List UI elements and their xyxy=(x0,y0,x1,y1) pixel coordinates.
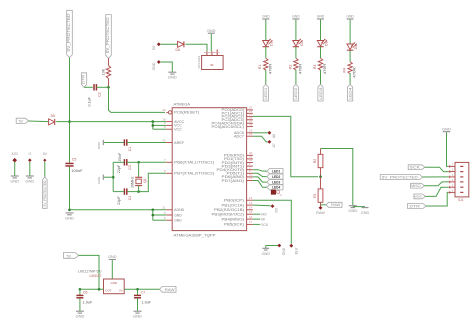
svg-text:470R: 470R xyxy=(268,63,272,74)
pinhead flag ADC6 xyxy=(253,131,276,138)
wire C3 left xyxy=(113,161,124,163)
svg-text:Q1: Q1 xyxy=(143,178,147,183)
capacitor C6 1.0uF xyxy=(76,289,93,311)
wire XTAL1 net xyxy=(139,161,167,163)
svg-text:5V: 5V xyxy=(152,45,156,50)
junction DTR-cap / pull-up xyxy=(107,86,110,89)
resistor R3 470 xyxy=(313,47,327,74)
svg-text:SJ1: SJ1 xyxy=(458,198,464,202)
wire 5V flag to D5 xyxy=(28,120,48,123)
pinhead flag 5V (to D6) xyxy=(152,42,161,50)
svg-text:GND: GND xyxy=(97,176,101,184)
ground GND above header xyxy=(442,126,451,131)
svg-text:A7D: A7D xyxy=(11,152,18,156)
wire PD pin to flag LED1 xyxy=(253,170,267,171)
wire R2 top to GND xyxy=(321,149,353,206)
LED D4 with ground xyxy=(346,14,358,50)
net flag DTR xyxy=(81,73,87,88)
svg-text:PB7(XTAL2/TOSC2): PB7(XTAL2/TOSC2) xyxy=(174,172,214,176)
supply flag 5V_PROTECTED (second) xyxy=(105,15,111,59)
IC U1 right pins xyxy=(212,106,253,227)
svg-text:1.0uF: 1.0uF xyxy=(83,301,93,305)
svg-text:D4: D4 xyxy=(354,45,358,49)
svg-text:17: 17 xyxy=(249,220,253,224)
net flag MOSI (header) xyxy=(414,187,449,199)
svg-text:12: 12 xyxy=(249,196,253,200)
wire D5 to AVCC rail xyxy=(56,121,166,123)
svg-text:RAW: RAW xyxy=(331,203,341,207)
svg-text:LED1: LED1 xyxy=(263,88,268,100)
svg-text:22pF: 22pF xyxy=(117,164,121,173)
svg-text:PB2(SS/OC1B): PB2(SS/OC1B) xyxy=(214,208,244,212)
pinhead flag GND@1 xyxy=(152,60,161,70)
wire 5V flag to OUT node xyxy=(79,255,99,289)
wire OUT to C6 xyxy=(80,288,104,290)
junction XTAL1 xyxy=(137,161,140,164)
net flag DTR (header) xyxy=(407,192,448,208)
wire GND@1 to ground xyxy=(161,62,173,72)
svg-text:GND: GND xyxy=(207,29,216,33)
resistor R2 divider top xyxy=(313,149,323,177)
wire PD pin to flag LED3 xyxy=(253,177,267,182)
wire C1 to AREF xyxy=(127,142,166,144)
svg-text:R1: R1 xyxy=(258,65,262,69)
svg-text:14: 14 xyxy=(249,206,253,210)
capacitor C5 100nF xyxy=(65,158,83,173)
wire cap ground bus x=113.2 xyxy=(112,162,114,191)
junction C7 node xyxy=(136,288,139,291)
svg-text:22pF: 22pF xyxy=(117,196,121,205)
net flag LED2 xyxy=(267,174,283,179)
svg-text:ATMEGA328P_TQFP: ATMEGA328P_TQFP xyxy=(174,233,217,237)
ground GND divider xyxy=(348,206,357,214)
wire PB0 long net down xyxy=(253,200,291,244)
svg-text:PB5(SCK): PB5(SCK) xyxy=(224,223,244,227)
svg-text:IN: IN xyxy=(119,288,122,292)
IC U1 ATMEGA328P body xyxy=(172,102,246,237)
svg-text:RAW: RAW xyxy=(165,288,176,292)
svg-text:PB1(OC1A): PB1(OC1A) xyxy=(222,203,245,207)
svg-text:SCK: SCK xyxy=(410,166,421,170)
ground GND near jack xyxy=(168,72,177,80)
svg-text:16: 16 xyxy=(249,215,253,219)
svg-text:D5: D5 xyxy=(51,114,55,118)
svg-text:LED4: LED4 xyxy=(347,87,352,100)
net flag 5V (regulator out) xyxy=(64,253,79,259)
svg-text:LED2: LED2 xyxy=(293,88,298,100)
net flag RAW (regulator in) xyxy=(160,286,177,292)
pinhead flag ADC7 xyxy=(253,136,276,147)
svg-text:16MHz: 16MHz xyxy=(130,176,134,188)
ground GND above jack xyxy=(207,29,216,33)
wire GND to regulator xyxy=(111,260,113,279)
wire C4 left xyxy=(113,191,124,193)
svg-text:GND: GND xyxy=(348,208,357,213)
svg-text:470R: 470R xyxy=(299,63,303,74)
net flag LED1 (LED column) xyxy=(263,70,268,102)
pinhead connector pin 5V with 5V_PROTECTED flag xyxy=(43,152,48,208)
ground GND above regulator xyxy=(108,255,117,259)
svg-text:AGND: AGND xyxy=(174,208,185,212)
capacitor C7 1.0uF xyxy=(134,289,152,311)
svg-text:R3: R3 xyxy=(313,65,317,69)
LED D3 with ground xyxy=(317,14,329,46)
svg-text:GND: GND xyxy=(97,141,101,149)
junction divider tap xyxy=(319,175,322,178)
svg-text:29: 29 xyxy=(162,108,166,112)
svg-text:GND: GND xyxy=(346,14,354,18)
svg-text:5V_PROTECTED: 5V_PROTECTED xyxy=(105,17,110,53)
svg-text:GND: GND xyxy=(168,75,177,80)
svg-text:D6: D6 xyxy=(176,48,180,52)
svg-text:C1: C1 xyxy=(128,147,132,152)
svg-text:D9: D9 xyxy=(275,208,279,213)
svg-text:GND: GND xyxy=(442,126,451,131)
wire ADC2 to divider xyxy=(253,116,318,176)
IC2 regulator LM1117 body xyxy=(78,270,124,294)
svg-text:R4: R4 xyxy=(343,68,347,72)
net flag LED2 (LED column) xyxy=(293,70,298,102)
svg-text:A7: A7 xyxy=(272,143,276,147)
svg-text:VCC: VCC xyxy=(174,128,182,132)
svg-text:OUT: OUT xyxy=(105,288,112,292)
LED D1 with ground xyxy=(262,14,274,46)
jumper pad below flags xyxy=(271,190,282,197)
wire C3 right xyxy=(127,161,138,163)
ground GND second (near divider) xyxy=(353,207,370,215)
junction cap bus GND tap xyxy=(112,176,115,179)
svg-text:470R: 470R xyxy=(323,63,327,74)
svg-text:GND: GND xyxy=(262,252,271,256)
net flag SCK (header) xyxy=(408,165,448,172)
capacitor C2 0.1uF xyxy=(87,84,101,106)
svg-text:10K: 10K xyxy=(102,68,106,75)
svg-text:MO: MO xyxy=(261,213,267,217)
junction AGND left xyxy=(68,209,71,212)
connector power jack X1 xyxy=(197,49,223,69)
svg-text:ADC7: ADC7 xyxy=(234,135,244,139)
ground GND below C6 xyxy=(75,311,84,319)
svg-text:GND: GND xyxy=(108,255,117,259)
svg-text:20: 20 xyxy=(162,138,166,142)
connector SV1 header body xyxy=(455,162,469,202)
pinhead connector pin G with ground xyxy=(25,152,34,184)
LED D2 with ground xyxy=(292,14,304,46)
capacitor C1 100nF xyxy=(118,139,132,163)
wire PD pin to flag LED2 xyxy=(253,173,267,176)
svg-text:PB6(XTAL1/TOSC1): PB6(XTAL1/TOSC1) xyxy=(174,161,214,165)
svg-text:MI: MI xyxy=(261,218,265,222)
svg-text:C6: C6 xyxy=(83,291,88,295)
wire PB4 MISO stub xyxy=(253,218,265,222)
junction GND branch xyxy=(152,214,155,217)
junction AGND mid xyxy=(152,209,155,212)
svg-text:D3: D3 xyxy=(324,41,328,45)
svg-text:PB4(MISO): PB4(MISO) xyxy=(222,217,245,221)
svg-text:BLK: BLK xyxy=(295,247,299,254)
wire GND pins branch xyxy=(153,210,167,220)
junction XTAL2 xyxy=(137,190,140,193)
svg-text:D1: D1 xyxy=(270,41,274,45)
IC U1 left pins xyxy=(162,108,214,222)
wire RESET net to IC xyxy=(109,87,166,112)
svg-text:C3: C3 xyxy=(128,165,132,170)
svg-text:LED1: LED1 xyxy=(272,169,280,173)
svg-text:A6: A6 xyxy=(272,134,276,138)
svg-text:5V: 5V xyxy=(19,119,24,123)
wire GND to C1 xyxy=(104,142,124,144)
net flag LED4 xyxy=(267,185,283,190)
svg-text:PB0(ICP): PB0(ICP) xyxy=(224,199,244,203)
net flag 5V_PROTECTED (header) xyxy=(380,175,448,180)
svg-text:C7: C7 xyxy=(141,291,146,295)
wire DTR to C2 xyxy=(84,86,93,88)
pinhead flag at PB0 bottom xyxy=(289,244,298,255)
svg-text:11: 11 xyxy=(249,176,252,180)
svg-text:RAW: RAW xyxy=(316,211,325,215)
svg-text:LED4: LED4 xyxy=(272,186,280,190)
ground GND below C5 xyxy=(65,213,74,221)
resistor R1 divider bottom xyxy=(313,177,323,207)
junction VCC branch xyxy=(152,124,155,127)
svg-text:PC5(ADC5/SCL): PC5(ADC5/SCL) xyxy=(212,125,245,129)
svg-text:GND: GND xyxy=(174,219,182,223)
svg-text:G: G xyxy=(29,152,32,156)
resistor R4 470 xyxy=(343,50,357,77)
wire C2 to reset junction xyxy=(97,86,109,88)
svg-text:GND: GND xyxy=(75,314,84,319)
supply flag 5V_PROTECTED (left) xyxy=(66,10,72,57)
svg-text:5V_PROTECTED: 5V_PROTECTED xyxy=(382,175,418,179)
junction OUT node xyxy=(98,288,101,291)
wire 5V to D6 xyxy=(161,43,178,45)
svg-text:SZV13F9: SZV13F9 xyxy=(197,55,201,68)
svg-text:470R: 470R xyxy=(353,67,357,78)
svg-text:MISO: MISO xyxy=(411,184,421,188)
svg-text:13: 13 xyxy=(249,201,253,205)
wire XTAL2 net xyxy=(139,173,167,191)
svg-text:GND: GND xyxy=(25,179,34,184)
svg-text:LED3: LED3 xyxy=(318,88,323,100)
svg-text:R2: R2 xyxy=(288,65,292,69)
svg-text:28: 28 xyxy=(249,122,253,126)
svg-text:C4: C4 xyxy=(128,196,132,201)
svg-text:GND: GND xyxy=(174,213,182,217)
svg-text:5V_PROTECTED: 5V_PROTECTED xyxy=(43,180,47,206)
capacitor C3 22pF xyxy=(117,159,132,173)
svg-text:R2: R2 xyxy=(313,159,317,163)
net flag LED4 (LED column) xyxy=(347,73,352,101)
svg-text:PB3(MOSI/OC2): PB3(MOSI/OC2) xyxy=(212,213,245,217)
junction 5V rail / D5 net xyxy=(68,120,71,123)
svg-text:15: 15 xyxy=(249,210,253,214)
net flag LED3 (LED column) xyxy=(318,70,323,102)
wire PD pin to flag LED4 xyxy=(253,181,267,188)
svg-text:ATMEGA: ATMEGA xyxy=(174,102,191,106)
svg-text:D2: D2 xyxy=(300,41,304,45)
svg-text:GND: GND xyxy=(65,215,74,220)
svg-text:100nF: 100nF xyxy=(118,152,122,163)
svg-text:GND: GND xyxy=(361,211,370,215)
wire PB5 SCK stub xyxy=(253,223,269,227)
svg-text:GND: GND xyxy=(262,14,270,18)
svg-text:21: 21 xyxy=(162,206,166,210)
wire VCC branch xyxy=(153,122,167,130)
svg-text:100nF: 100nF xyxy=(71,168,83,173)
svg-text:GND: GND xyxy=(10,179,19,184)
diode D5 xyxy=(49,114,55,125)
svg-text:1.0uF: 1.0uF xyxy=(142,301,152,305)
svg-text:DTR: DTR xyxy=(409,204,420,208)
diode D6 xyxy=(176,41,184,52)
wire IN to RAW xyxy=(124,288,159,290)
svg-text:22: 22 xyxy=(249,132,253,136)
svg-text:GND: GND xyxy=(282,247,286,255)
ground GND (crystal caps) xyxy=(97,175,103,184)
connector SV1 pins xyxy=(449,164,464,194)
svg-text:C5: C5 xyxy=(72,158,77,162)
wire GND tap xyxy=(104,176,113,178)
svg-text:GND: GND xyxy=(133,314,142,319)
svg-text:LM1117MP-5.0: LM1117MP-5.0 xyxy=(78,270,101,274)
svg-text:R1: R1 xyxy=(313,193,317,197)
pinhead RAW below divider xyxy=(316,206,325,215)
capacitor C4 22pF xyxy=(117,188,132,204)
ground GND below C7 xyxy=(133,311,142,319)
net flag MISO (header) xyxy=(411,182,449,188)
net flag LED3 xyxy=(267,180,283,185)
svg-text:MOSI: MOSI xyxy=(414,195,422,199)
wire AGND rail xyxy=(70,209,167,211)
resistor R pull-up 10K xyxy=(102,58,111,87)
wire GND to jack pin 2 xyxy=(210,34,212,52)
wire 5V_PROTECTED rail down (x=69.5) xyxy=(69,58,71,210)
resistor R1 470 xyxy=(258,47,272,74)
svg-text:C2: C2 xyxy=(97,92,101,97)
crystal Q1 16MHz xyxy=(130,162,147,191)
wire PB3 MOSI stub xyxy=(253,213,267,217)
svg-text:A: A xyxy=(280,193,282,197)
svg-text:DTR: DTR xyxy=(81,75,86,85)
svg-text:PC6(RESET): PC6(RESET) xyxy=(174,111,199,115)
pinhead connector pin A7D with ground xyxy=(10,152,19,184)
svg-text:LED2: LED2 xyxy=(272,175,280,179)
svg-text:GND: GND xyxy=(317,14,325,18)
wire GND to header pin 1 xyxy=(447,132,449,166)
svg-text:AREF: AREF xyxy=(174,141,184,145)
ground with pinhead (bottom middle) xyxy=(262,244,287,256)
wire D6 to jack pin 1 xyxy=(185,44,207,51)
wire C4 right xyxy=(127,191,138,193)
junction rail x=152.8 xyxy=(152,120,155,123)
ground GND (AREF cap) xyxy=(97,140,103,149)
svg-text:5V_PROTECTED: 5V_PROTECTED xyxy=(66,14,71,52)
junction C6 node xyxy=(79,288,82,291)
resistor R2 470 xyxy=(288,47,302,74)
svg-text:LED3: LED3 xyxy=(272,180,280,184)
svg-text:PD7(AIN1): PD7(AIN1) xyxy=(222,179,245,183)
svg-text:GND: GND xyxy=(292,14,300,18)
svg-text:5V: 5V xyxy=(67,254,72,258)
svg-text:LM1117: LM1117 xyxy=(90,274,102,278)
net flag 5V (left rail) xyxy=(16,118,28,123)
svg-text:GND: GND xyxy=(110,281,118,285)
svg-text:SCK: SCK xyxy=(261,223,269,227)
svg-text:GND: GND xyxy=(152,62,156,70)
svg-text:0.1uF: 0.1uF xyxy=(87,96,91,106)
net flag LED1 xyxy=(267,169,283,174)
net flag RAW (divider) xyxy=(321,202,343,207)
pinhead flag PB1 xyxy=(253,204,279,212)
